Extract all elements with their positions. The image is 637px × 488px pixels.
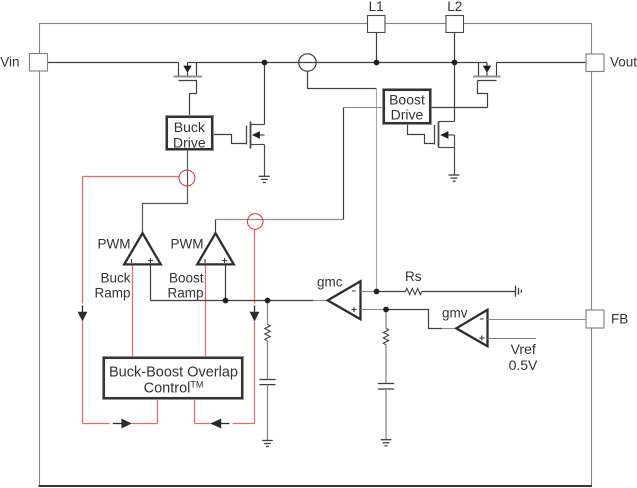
op-amp gmc [328,281,361,319]
svg-text:Boost: Boost [389,91,425,107]
resistor comp2 [383,328,388,345]
svg-text:Drive: Drive [173,134,206,150]
transistor Q4 boost low-side NMOS [454,63,456,122]
svg-text:Drive: Drive [391,106,424,122]
svg-text:Vin: Vin [0,54,19,69]
ground boost NMOS [449,175,460,181]
op-amp buck PWM comparator [124,233,161,264]
wire Boost Drive bottom to Q4 gate [408,125,435,144]
red wire buck loop: circle to left, down, to overlap box [83,177,180,424]
red wire boost ramp [205,265,207,358]
op-amp gmv [456,310,487,347]
transistor Q2 boost high-side PMOS [479,63,497,76]
ground reference (rotated) at end of Rs wire [516,286,522,297]
ground comp1 [262,441,273,447]
boost PWM input marks - and + [205,258,227,263]
svg-text:Boost: Boost [169,271,204,286]
wire Q1 gate to Buck Drive [190,81,197,116]
wire Rs to reference [422,291,516,293]
node gmc minus / current sense [374,289,380,295]
op-amp boost PWM comparator [197,233,234,264]
svg-text:Vout: Vout [610,54,637,69]
wire gmv plus Vref [488,338,537,340]
resistor comp1 [265,324,270,341]
svg-text:Buck: Buck [100,271,130,286]
gmc input marks - and + [352,291,357,312]
svg-text:0.5V: 0.5V [509,357,538,373]
wire gmc plus to gmv output [386,310,442,329]
port FB [586,310,604,328]
arrow down on right red wire [254,306,256,313]
ground comp2 [381,440,392,446]
red wire boost loop: circle down, left to overlap box [195,229,255,423]
port Vin [30,54,48,72]
red probe circle buck [179,170,195,186]
port L1 [368,16,386,33]
arrow right on bottom red wire [113,423,122,425]
wire Buck Drive to Q3 gate [214,135,247,144]
svg-text:L2: L2 [447,0,462,14]
svg-text:Ramp: Ramp [167,286,203,301]
port L2 [446,16,464,33]
block Boost Drive [383,89,432,125]
resistor Rs [406,288,422,294]
svg-text:FB: FB [611,312,628,327]
arrow left on bottom red wire [221,423,230,425]
wire current sense tap [308,71,377,88]
node rail / L2 pin [452,60,458,66]
node rail / L1 pin [374,60,380,66]
wire main rail buck PMOS to boost PMOS (through sense circle) [197,62,479,64]
compensation branch 1: resistor + capacitor to ground [267,301,269,325]
block Buck-Boost Overlap Control [103,357,244,400]
wire gmc minus input [361,291,377,293]
wire L1 stub [376,33,378,63]
svg-text:PWM: PWM [98,237,131,252]
svg-text:PWM: PWM [171,237,204,252]
red wire buck ramp [132,265,134,358]
wire boost PWM output up and right to Boost Drive [215,220,217,234]
wire rail boost PMOS to Vout [497,62,587,64]
svg-text:gmc: gmc [317,275,343,290]
buck PWM input marks - and + [132,258,154,263]
port Vout [586,54,604,72]
current sense circle [299,54,316,71]
svg-text:gmv: gmv [442,306,468,321]
wire gmc output to PWM plus inputs [150,265,152,301]
red probe circle boost [247,214,263,230]
wire Buck Drive output down to buck PWM [143,151,188,234]
node gmc output / boost PWM plus [223,298,229,304]
wire main rail Vin to buck PMOS [48,62,179,64]
wire Boost Drive right to Q2 gate [432,107,488,109]
IC boundary bottom edge (dark) [39,485,593,487]
wire gmc plus input [361,309,387,311]
wire L2 stub [454,33,456,63]
wire gmv minus to FB [488,319,587,321]
block Buck Drive [166,116,214,151]
capacitor comp1 [259,380,275,385]
svg-text:L1: L1 [369,0,384,14]
wire Q2 gate drop [478,81,488,108]
node rail / buck NMOS drain [262,60,268,66]
gmv input marks - and + [479,319,484,341]
svg-text:Rs: Rs [405,269,422,284]
capacitor comp2 [378,384,394,390]
svg-text:Buck: Buck [174,119,206,135]
svg-text:Buck-Boost Overlap: Buck-Boost Overlap [109,364,238,380]
svg-text:Vref: Vref [511,341,536,357]
node gmc plus / compensation branch 2 [383,307,389,313]
transistor Q1 buck high-side PMOS [179,63,197,76]
svg-text:Ramp: Ramp [94,286,130,301]
ground buck NMOS [259,176,270,182]
compensation branch 2: resistor + capacitor to ground [385,310,387,329]
arrow down on left red wire [82,306,84,313]
node gmc output / compensation branch 1 [265,298,271,304]
transistor Q3 buck low-side NMOS [264,63,266,125]
